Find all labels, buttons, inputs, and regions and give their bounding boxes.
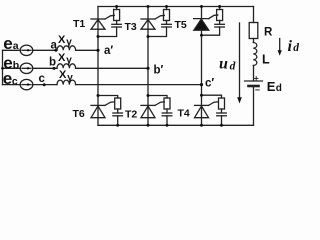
svg-text:T3: T3 [125, 21, 137, 33]
svg-text:u: u [219, 56, 228, 73]
svg-text:T1: T1 [73, 18, 85, 30]
svg-text:b: b [49, 57, 56, 69]
svg-text:R: R [264, 27, 273, 39]
svg-text:L: L [262, 53, 270, 67]
svg-text:X: X [58, 52, 66, 64]
svg-text:i: i [288, 38, 293, 55]
svg-text:a: a [51, 39, 58, 51]
svg-text:c: c [12, 75, 18, 87]
svg-text:d: d [276, 83, 282, 94]
svg-text:b: b [13, 60, 19, 72]
svg-text:a: a [13, 40, 19, 52]
svg-text:a′: a′ [104, 45, 113, 57]
svg-text:T6: T6 [73, 108, 85, 120]
svg-text:X: X [58, 34, 66, 46]
svg-text:e: e [3, 69, 12, 88]
svg-text:T2: T2 [125, 109, 137, 121]
svg-text:E: E [267, 79, 276, 94]
svg-text:T5: T5 [175, 19, 187, 31]
svg-text:T4: T4 [178, 108, 190, 120]
svg-text:d: d [230, 60, 236, 72]
svg-text:e: e [3, 34, 12, 53]
svg-text:γ: γ [67, 72, 73, 83]
svg-text:c: c [39, 73, 46, 85]
svg-text:d: d [293, 42, 299, 54]
svg-text:γ: γ [66, 55, 72, 66]
svg-text:c′: c′ [205, 78, 214, 90]
svg-text:X: X [59, 69, 67, 81]
svg-text:b′: b′ [154, 65, 164, 77]
svg-text:γ: γ [66, 37, 72, 48]
